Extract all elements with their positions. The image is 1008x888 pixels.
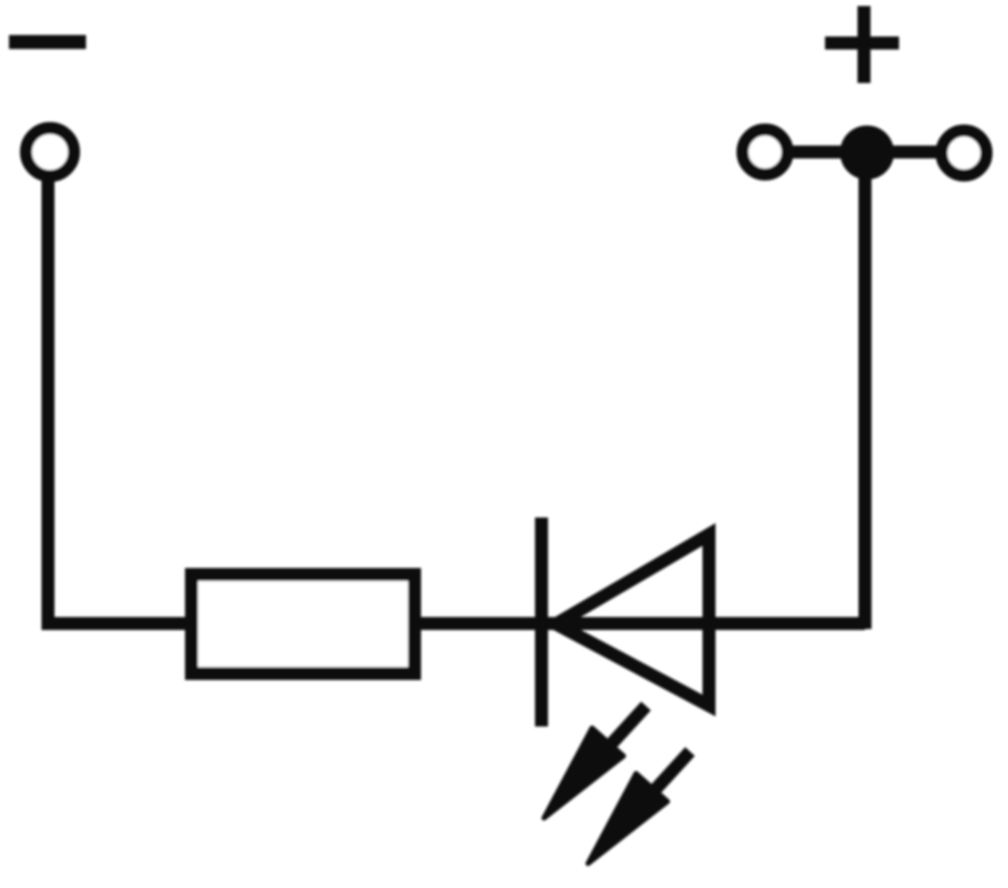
LED D1 triangle: [556, 535, 709, 706]
LED D1 cathode bar: [535, 518, 548, 727]
plus polarity label: [825, 6, 899, 83]
LED light arrow 1: [544, 706, 646, 818]
terminal X1 (minus, open circle): [26, 128, 74, 176]
minus polarity label: [9, 35, 86, 49]
junction node (plus bus): [840, 126, 894, 180]
LED light arrow 2: [588, 752, 690, 864]
wire: left terminal down and across to resistor: [48, 178, 192, 624]
wire: junction to right plus terminal: [887, 146, 942, 159]
resistor R1: [192, 575, 415, 674]
wire: riser up to plus junction: [859, 170, 872, 629]
terminal X3 (plus right, open circle): [942, 131, 987, 176]
wire: junction to left plus terminal: [786, 146, 845, 159]
wire: resistor to right riser: [414, 617, 865, 630]
terminal X2 (plus left, open circle): [743, 130, 788, 175]
